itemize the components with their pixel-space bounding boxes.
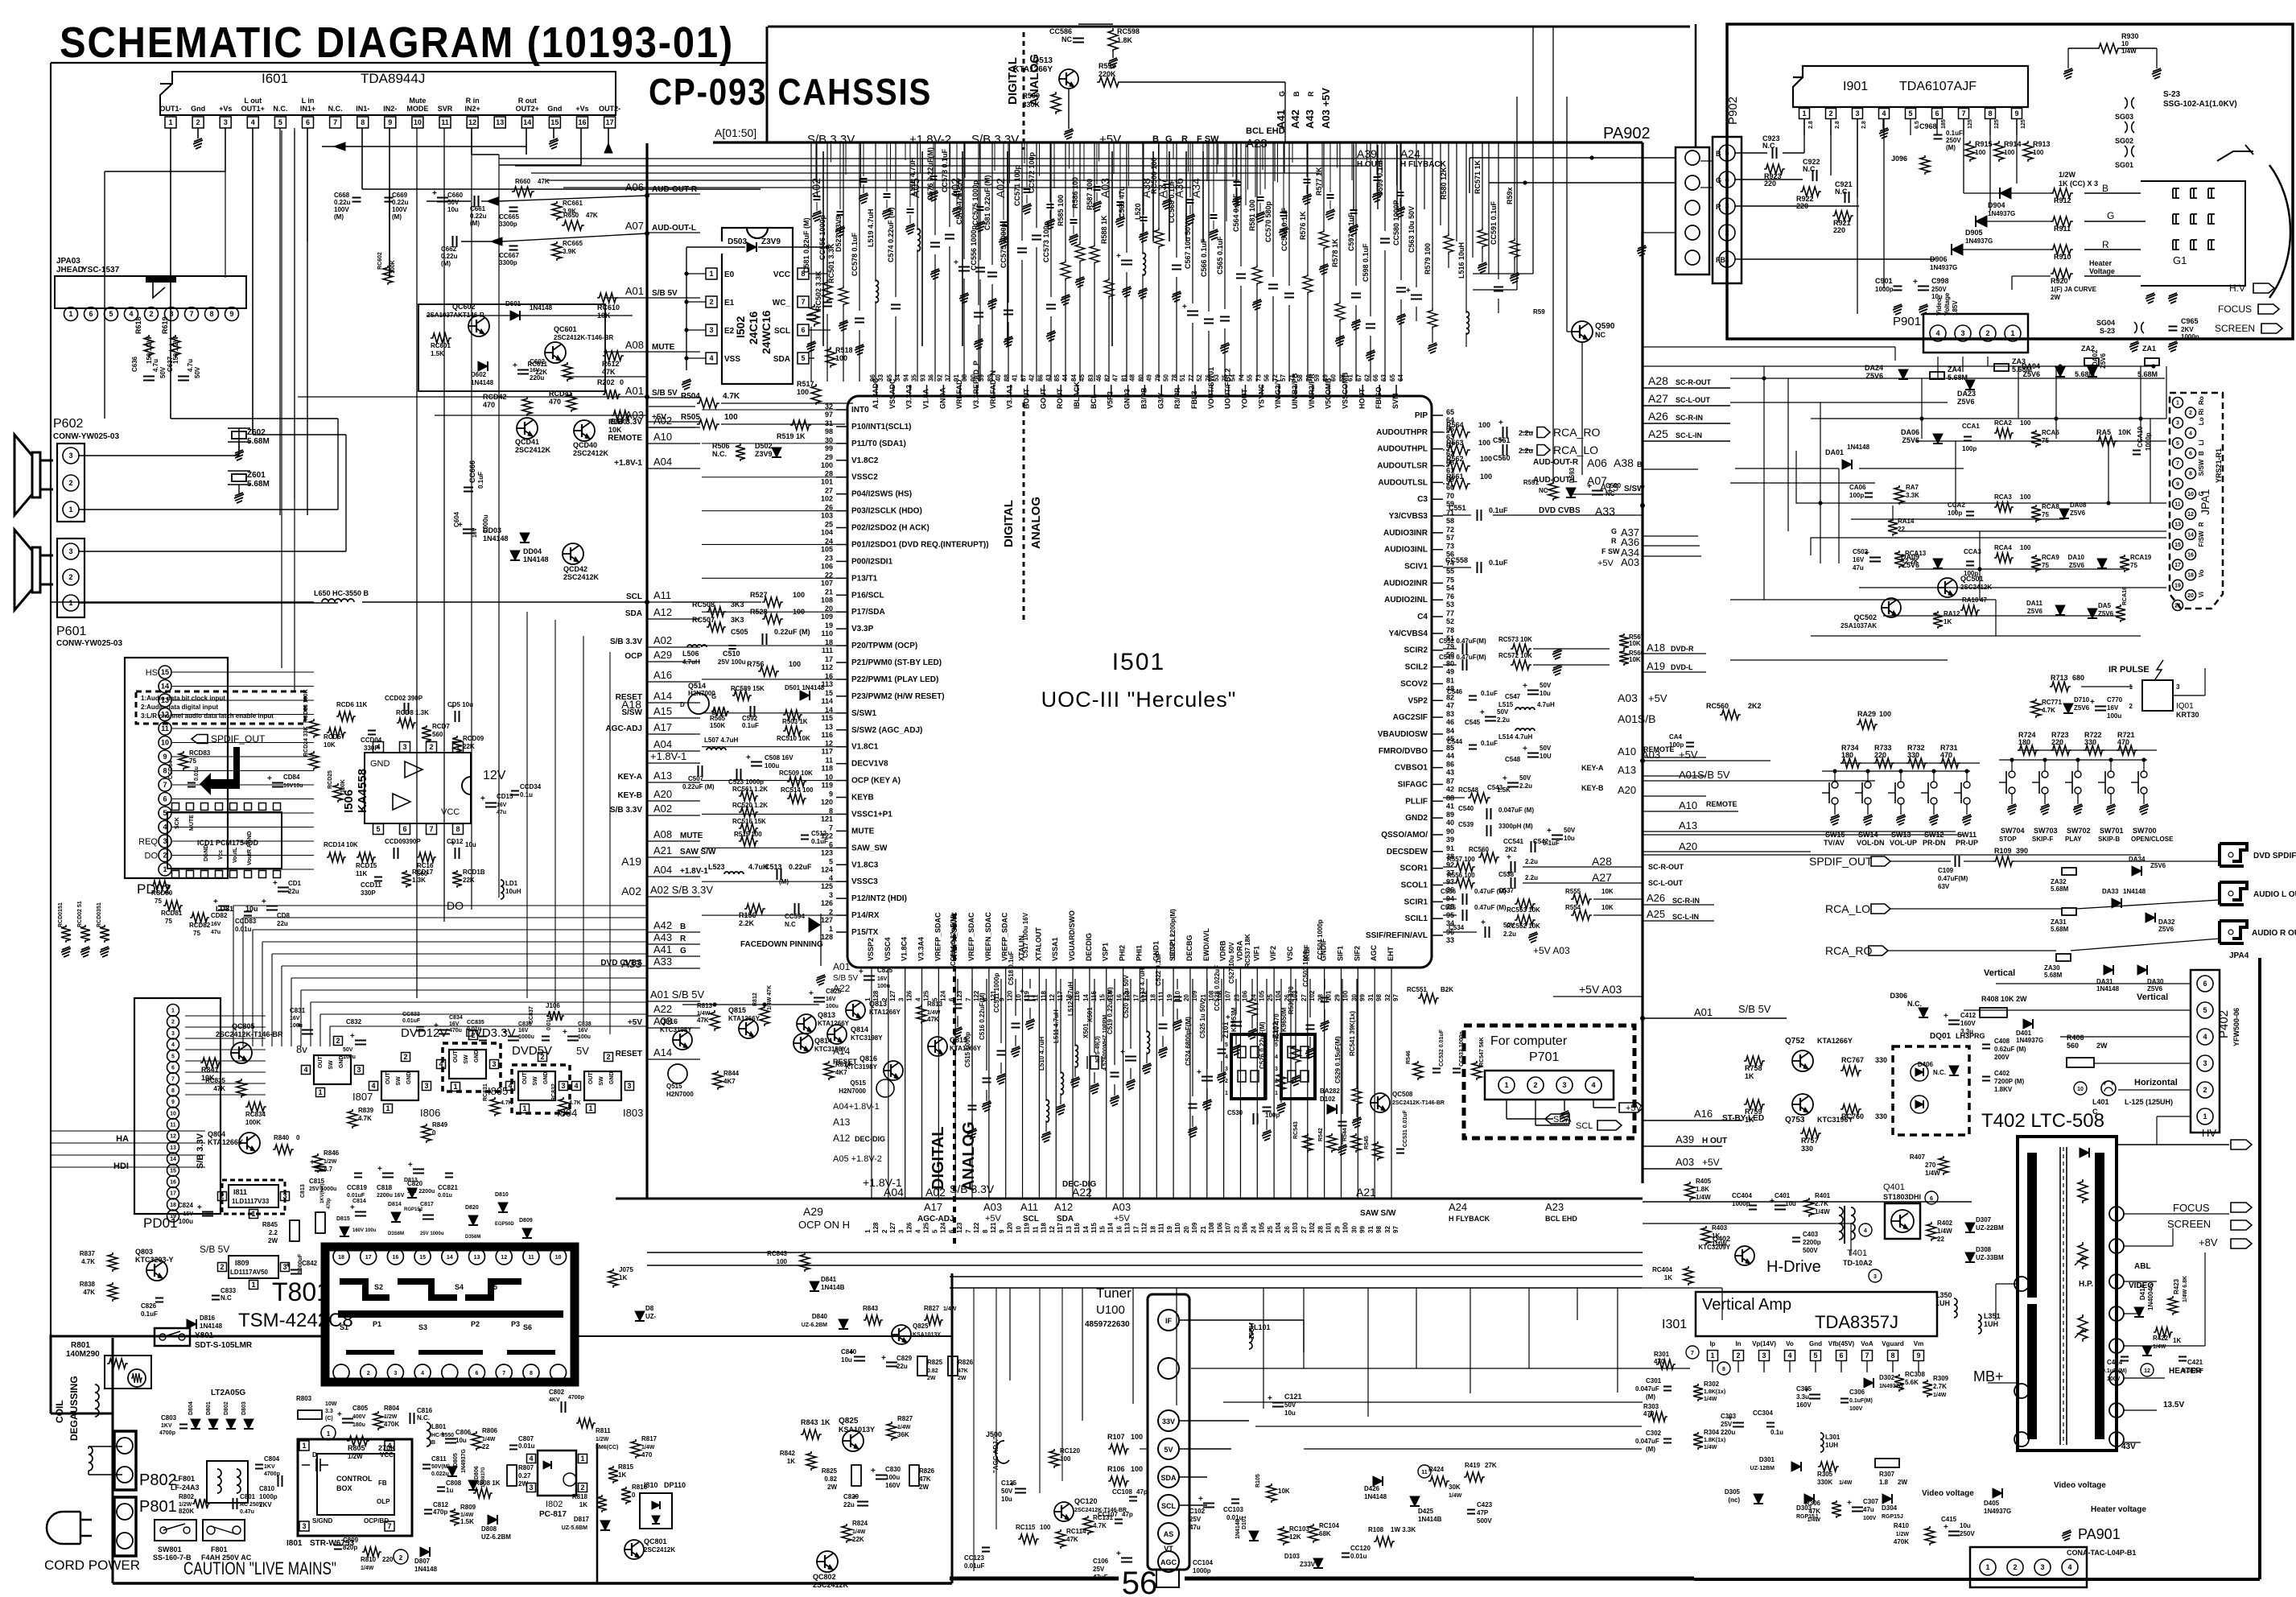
svg-text:D905: D905 [1965,229,1983,237]
svg-text:22: 22 [482,1443,489,1451]
capacitor C832 100u [355,1040,366,1042]
svg-text:ZA1: ZA1 [2142,345,2156,353]
svg-text:+1.8V-1: +1.8V-1 [680,867,708,876]
svg-text:VOL-DN: VOL-DN [1857,839,1885,847]
svg-text:P11/T0 (SDA1): P11/T0 (SDA1) [851,439,906,448]
svg-text:N.C.: N.C. [328,105,343,113]
svg-text:VSSC3: VSSC3 [851,877,878,886]
svg-text:3300p: 3300p [499,259,517,266]
svg-text:47p: 47p [1136,1488,1148,1496]
svg-text:104: 104 [1275,1222,1282,1233]
capacitor C305 3.3u [1809,1394,1820,1396]
wires above IC horizontals [499,158,1432,159]
svg-text:G3/Y: G3/Y [1156,392,1164,409]
svg-text:2: 2 [2189,411,2192,416]
svg-text:R579 100: R579 100 [1424,243,1432,274]
svg-text:7: 7 [189,310,193,318]
svg-text:2SC2412K: 2SC2412K [573,449,609,457]
svg-text:L650 HC-3550 B: L650 HC-3550 B [314,589,369,597]
svg-text:C305: C305 [1796,1385,1812,1393]
resistor RC760 330 [1841,1104,1861,1114]
resistor R591 NC [1548,481,1558,501]
svg-text:16V: 16V [826,997,836,1002]
wire vertical 4 [1516,97,1518,290]
coil L351 1UH [1978,1314,1981,1334]
component CC580 column [1400,142,1402,280]
resistor RCD09 22K [452,736,462,753]
svg-text:1.8: 1.8 [1879,1479,1889,1486]
svg-text:KEY-A: KEY-A [1581,764,1604,772]
pin 94 I501 V3.3A2 [909,385,911,396]
svg-text:1:Audio data bit clock input: 1:Audio data bit clock input [141,695,225,702]
svg-text:RC507: RC507 [692,616,715,624]
pin 1 PD01 [167,1005,179,1017]
svg-text:EHT: EHT [1387,946,1395,961]
svg-text:P601: P601 [56,625,86,638]
pin 11 PD02 [159,722,171,735]
svg-text:C518 0.1uF: C518 0.1uF [1008,951,1015,985]
transistor Q815 KTA1266Y b [739,1019,758,1038]
svg-text:DVD SPDIF: DVD SPDIF [2253,852,2296,860]
svg-text:1: 1 [588,1104,592,1112]
svg-text:L523: L523 [708,863,725,871]
svg-text:86: 86 [1037,374,1044,382]
svg-text:C102: C102 [1189,1508,1206,1515]
svg-text:Voltage: Voltage [1944,292,1951,316]
svg-text:0.1uF: 0.1uF [1543,840,1560,847]
transistor QCD42 2SC2412K [563,543,583,564]
svg-text:C669: C669 [392,192,408,199]
svg-text:+: + [881,1354,886,1363]
pin 17 I601 [604,117,616,128]
svg-text:C831: C831 [290,1007,306,1014]
svg-text:0.047uF: 0.047uF [1635,1385,1659,1393]
thick right border [2258,958,2261,1579]
resistor R825b 2W [917,1356,927,1376]
diode C814 160V 100u [355,1211,366,1213]
svg-text:25V: 25V [1189,1516,1202,1523]
capacitor C303 220u [1733,1422,1744,1424]
svg-text:AUDOUTHPL: AUDOUTHPL [1377,445,1428,454]
resistor RC508 3K3 [707,607,726,617]
svg-text:100p: 100p [1948,510,1962,517]
svg-text:125: 125 [923,990,930,1001]
svg-text:R809: R809 [460,1504,476,1511]
pin 8 I506 [453,824,464,835]
wire I601 pin16 [580,128,582,165]
svg-text:R576 1K: R576 1K [1299,211,1307,240]
svg-text:A01: A01 [625,385,644,397]
svg-text:97: 97 [1392,994,1399,1001]
svg-text:16: 16 [170,1180,176,1186]
svg-text:R843: R843 [863,1305,879,1312]
svg-text:Q813: Q813 [818,1011,835,1019]
resistor RCD8 1.3K [397,718,416,728]
svg-text:Q515: Q515 [666,1083,682,1090]
svg-text:A17: A17 [653,721,672,733]
svg-text:PHI2: PHI2 [1119,945,1127,961]
svg-text:3: 3 [1275,1067,1278,1072]
svg-text:100p: 100p [1962,445,1977,452]
svg-text:(M): (M) [1646,1393,1655,1401]
svg-text:123: 123 [956,1222,963,1233]
diode D401 1N4937G [2023,1019,2033,1029]
transistor Q815 KTA1266Y [928,1037,947,1056]
wire I601 pin17 [608,128,609,143]
svg-text:R59: R59 [1533,308,1545,316]
capacitor C813 470p [315,1212,325,1233]
svg-text:SCREEN: SCREEN [2167,1218,2211,1230]
svg-text:FBL3: FBL3 [1190,391,1198,410]
svg-text:+: + [1847,1499,1852,1508]
diode D602 1N4148 [478,361,488,371]
svg-text:A20: A20 [1679,840,1697,852]
svg-text:RCA16: RCA16 [2122,587,2128,605]
svg-text:0.47u: 0.47u [240,1509,254,1515]
svg-text:R913: R913 [2033,140,2051,148]
pin 3 I501 P12/INT2 (HDI) [836,898,847,899]
svg-text:S/SW: S/SW [1624,485,1645,493]
svg-text:SW11: SW11 [1957,831,1977,839]
capacitor CC304 0.1u [1766,1422,1775,1424]
svg-text:C551: C551 [1449,504,1466,512]
svg-text:KRT30: KRT30 [2176,711,2199,719]
svg-text:C302: C302 [1646,1430,1662,1437]
svg-text:Horizontal: Horizontal [2134,1078,2178,1087]
regulator I809 LD1117AV50 [229,1256,278,1278]
svg-text:6: 6 [306,118,310,126]
svg-text:77: 77 [1446,609,1454,617]
resistor RC507 3K3 [707,622,726,632]
svg-text:SC-R-IN: SC-R-IN [1676,414,1703,422]
pin 93 I501 SCOL1 [1432,884,1443,885]
component R581 column [1256,142,1258,266]
svg-text:RCA3: RCA3 [1994,493,2012,501]
component L512 bottom column [1074,979,1076,1046]
svg-text:15: 15 [1099,994,1107,1001]
svg-text:+: + [1480,708,1485,717]
svg-text:CONTROL: CONTROL [336,1475,373,1483]
svg-text:CONA-TAC-L04P-B1: CONA-TAC-L04P-B1 [2067,1549,2136,1557]
wire loop C [1859,587,2166,588]
svg-text:106: 106 [1241,1222,1248,1233]
svg-text:B: B [1637,460,1643,468]
svg-text:4: 4 [421,1371,424,1376]
svg-text:330K: 330K [1817,1479,1832,1486]
regulator I811 1LD1117V33 [222,1180,285,1214]
pin 27 I501 P04/I2SWS (HS) [836,493,847,495]
svg-text:CC586: CC586 [1049,27,1072,35]
pin 1 I901 [1799,109,1810,119]
pin 1 P601 [63,595,79,611]
svg-text:3: 3 [163,837,167,845]
svg-text:R: R [1181,134,1188,144]
svg-text:2K2: 2K2 [1748,702,1762,710]
pin 14 T801 [442,1248,458,1265]
svg-text:47u: 47u [1853,564,1864,572]
svg-text:1N4148: 1N4148 [1847,444,1870,451]
capacitor C530 100p [1253,1113,1255,1125]
svg-text:7: 7 [965,1229,972,1233]
svg-text:+: + [1198,1495,1203,1504]
svg-text:R807: R807 [518,1464,534,1471]
svg-text:B3/PB: B3/PB [1140,387,1148,409]
svg-text:47K: 47K [586,212,598,219]
svg-text:50V: 50V [159,366,167,378]
svg-text:2SC2412K: 2SC2412K [515,446,551,454]
pin NC U100 [1158,1358,1179,1379]
svg-text:RCA_RO: RCA_RO [1553,426,1600,439]
pin 1 I502 E0 [706,268,717,279]
capacitor C551 0.1uF [1443,514,1471,516]
wire PA902 pin5 row [1470,157,1676,159]
transistor Q814 KTC3198Y b [794,1034,813,1053]
capacitor C106 25V 47uF [1121,1558,1132,1559]
svg-text:V1.8C3: V1.8C3 [851,860,879,869]
component R587 column [1094,142,1095,245]
svg-text:SSG-102-A1(1.0KV): SSG-102-A1(1.0KV) [2163,100,2237,109]
svg-text:2.2: 2.2 [269,1229,278,1236]
svg-text:4: 4 [1935,329,1939,337]
svg-text:13: 13 [1066,1226,1073,1233]
pin 1 I501 P15/TX [836,931,847,933]
svg-text:10U: 10U [1540,753,1552,760]
svg-text:87: 87 [1446,777,1454,785]
resistor RC601 1.5K [431,333,451,343]
svg-text:57: 57 [1446,534,1454,542]
svg-text:F SW: F SW [1601,547,1620,555]
pin x T801 bottom [550,1364,567,1380]
svg-text:KTC3203-Y: KTC3203-Y [135,1256,174,1264]
svg-text:KTA1266Y: KTA1266Y [818,1020,850,1027]
svg-text:UOC-III "Hercules": UOC-III "Hercules" [1041,687,1237,712]
resonator Z601 5.68M [232,474,246,481]
svg-text:C998: C998 [1931,277,1949,285]
svg-text:L513 4.7uH: L513 4.7uH [1139,968,1146,1002]
svg-text:0.01uF: 0.01uF [964,1562,984,1570]
svg-text:SW702: SW702 [2067,827,2091,835]
svg-text:3: 3 [282,1192,286,1200]
svg-text:1000p: 1000p [2181,333,2199,340]
svg-text:D820: D820 [465,1205,479,1211]
svg-text:0.01u: 0.01u [467,1026,481,1032]
svg-text:E0: E0 [724,270,735,279]
svg-text:22u: 22u [843,1501,855,1508]
svg-text:CC578 0.1uF: CC578 0.1uF [941,148,949,192]
resistor RC843 100 [800,1252,810,1272]
svg-text:RCA_RO: RCA_RO [1825,944,1872,957]
svg-text:D301: D301 [1759,1456,1775,1463]
svg-text:AUDIO3INR: AUDIO3INR [1383,529,1428,538]
svg-text:10K: 10K [608,426,622,434]
transistor QCD41 2SC2412K [517,418,538,439]
svg-text:R410: R410 [1894,1522,1910,1529]
power plug [47,1512,92,1544]
svg-text:SW15: SW15 [1825,831,1845,839]
svg-text:YRS21-R1: YRS21-R1 [2215,448,2223,483]
resistor R202 0 [603,390,620,399]
wire I502 left rail [686,247,687,370]
svg-text:N.C: N.C [1803,165,1816,173]
svg-text:470: 470 [641,1451,653,1459]
svg-text:10K: 10K [1601,904,1614,911]
svg-text:P3: P3 [511,1320,520,1328]
svg-text:14: 14 [447,1255,453,1261]
svg-text:CC120: CC120 [1350,1545,1371,1552]
pin 7 I506 [427,824,437,835]
svg-text:C806: C806 [455,1429,472,1436]
svg-text:31: 31 [1367,994,1375,1001]
svg-text:D102: D102 [1320,1096,1336,1103]
tag H.V [2253,283,2274,293]
pin 5 PD02 [159,807,171,819]
svg-text:89: 89 [1446,811,1454,819]
svg-text:1.8KV: 1.8KV [1994,1086,2013,1093]
svg-text:R105: R105 [1255,1474,1261,1488]
degaussing coil symbol [89,1446,93,1471]
transistor Q804 KTA1266Y [239,1133,260,1153]
pin bottom I501 VREFN_SDAC [954,968,956,1199]
svg-text:C805: C805 [352,1405,369,1412]
svg-text:6: 6 [1930,1196,1933,1202]
svg-text:18: 18 [1149,994,1156,1001]
svg-text:93: 93 [920,374,927,382]
svg-text:I805: I805 [488,1085,508,1097]
svg-text:8: 8 [163,767,167,775]
svg-text:43V: 43V [2121,1442,2136,1451]
component R577 column [1323,142,1325,230]
svg-text:P21/PWM0 (ST-BY LED): P21/PWM0 (ST-BY LED) [851,658,942,667]
wire PA902 down corner [1695,24,1697,147]
svg-text:123: 123 [821,848,833,856]
capacitor C539 3300p [1486,825,1488,836]
svg-text:AS: AS [1164,1530,1174,1538]
pin 10 PD02 [159,737,171,749]
svg-text:SVM: SVM [1391,393,1399,409]
svg-text:+: + [480,794,485,803]
svg-text:0.01uF: 0.01uF [347,1193,365,1199]
capacitor C534 2.2u [1443,931,1477,933]
pin 77 I501 FBL3 [1194,385,1196,396]
svg-text:7: 7 [429,825,433,833]
svg-text:122: 122 [973,1222,980,1233]
svg-text:KTA1266Y: KTA1266Y [728,1015,761,1022]
svg-text:R815: R815 [618,1463,634,1471]
svg-text:R843: R843 [801,1418,818,1426]
svg-text:17: 17 [1132,1226,1140,1233]
pin 14 PD02 [159,680,171,693]
pin 87 I501 BOUT [1027,385,1028,396]
resistor RC589 15K [732,691,752,700]
svg-text:S2: S2 [374,1283,383,1291]
resistor R842 1K [806,1451,816,1471]
wire verticals mid-left gap [526,612,528,998]
svg-text:22K: 22K [852,1536,864,1543]
svg-text:VoutR AGND: VoutR AGND [247,832,253,865]
svg-text:17: 17 [365,1255,372,1261]
svg-text:0.022u: 0.022u [431,1471,449,1477]
resistor R309 2.7K [1923,1380,1932,1397]
component C563 column [1416,142,1417,287]
svg-text:RESET: RESET [616,1050,642,1058]
svg-text:97: 97 [825,411,833,419]
component C598 column [1370,142,1371,316]
resistor RCD18 22K [452,870,462,888]
CRT board frame [1727,24,2293,339]
svg-text:43: 43 [1446,769,1454,777]
svg-text:Q814: Q814 [851,1025,868,1034]
svg-text:CC528 0.022uF: CC528 0.022uF [1214,965,1221,1011]
svg-text:R660: R660 [515,178,531,185]
capacitor C302 0.047uF [1663,1438,1672,1440]
resistor R650 47K [562,221,584,230]
diode D306 N.C. [1919,1008,1928,1017]
capacitor C512 0.1uF [801,835,809,836]
capacitor C412 160V 3.3u [1948,1020,1960,1021]
svg-text:32: 32 [1384,1226,1391,1233]
svg-text:680: 680 [2072,674,2084,682]
resistor flyback pot2 [2078,1314,2088,1342]
svg-text:CD15: CD15 [497,793,513,800]
svg-text:A23: A23 [1545,1201,1564,1213]
resistor R599 220K [1097,77,1121,87]
svg-text:100: 100 [793,591,805,599]
pin 7 JPA1 [2173,458,2183,468]
diode D405 1N4937G [1993,1488,2002,1498]
resistor R303 470 [1648,1412,1667,1422]
component C515 bottom column [971,979,973,1098]
resistor RCD17 1.3K [402,870,411,888]
capacitor C833 N.C [212,1295,220,1297]
svg-text:KTA1266Y: KTA1266Y [1817,1037,1853,1045]
IC I506 KA4558 [365,753,471,823]
pin AS U100 [1158,1523,1179,1544]
svg-text:R840: R840 [274,1134,290,1141]
capacitor C770 16V 100u [2095,706,2106,708]
svg-text:0.01uF: 0.01uF [402,1018,421,1024]
svg-text:GND: GND [543,1071,549,1084]
svg-text:4700p: 4700p [159,1430,175,1436]
svg-text:R930: R930 [2121,32,2139,40]
svg-text:22K: 22K [463,877,475,884]
svg-text:R107: R107 [1107,1433,1125,1441]
svg-text:D425: D425 [1418,1508,1434,1515]
svg-text:51: 51 [1179,374,1186,382]
svg-text:NC: NC [1061,35,1072,43]
svg-text:SAW_SW: SAW_SW [851,844,888,852]
svg-text:2KV: 2KV [259,1501,272,1508]
svg-text:100: 100 [1480,472,1492,481]
svg-text:FMRO/DVBO: FMRO/DVBO [1379,747,1428,756]
svg-text:1: 1 [251,1281,255,1289]
svg-text:C590: C590 [1606,482,1622,489]
svg-text:330: 330 [2084,738,2096,746]
svg-text:0.22u: 0.22u [441,253,458,260]
svg-text:I803: I803 [623,1107,643,1119]
svg-text:4.7u: 4.7u [187,359,194,372]
svg-text:1LD1117V33: 1LD1117V33 [232,1198,270,1205]
resistor R758 1K [1744,1056,1765,1066]
pin 4 I506 [373,742,384,753]
svg-text:100: 100 [1131,1465,1143,1473]
svg-text:C825: C825 [877,967,893,974]
svg-text:SDA: SDA [773,355,790,364]
svg-text:G: G [1611,527,1617,535]
svg-text:1: 1 [829,925,833,933]
svg-text:L511 4.7uH: L511 4.7uH [1053,1009,1060,1043]
resistor flyback pot [2078,1242,2088,1269]
svg-text:25V: 25V [1093,1566,1105,1573]
